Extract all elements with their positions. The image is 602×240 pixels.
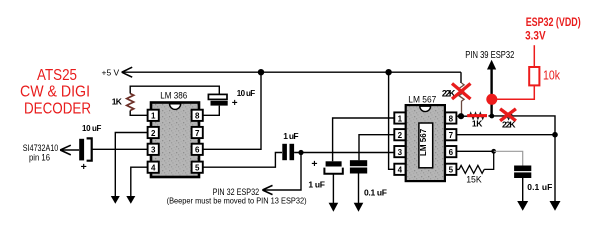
- junction rail to LM386 pin6: [258, 69, 264, 75]
- wire 10k to 3.3V: [533, 45, 535, 67]
- wire +5V rail: [122, 71, 461, 73]
- resistor 10k pullup (red): [529, 67, 539, 85]
- pin 3 U1: [148, 144, 159, 155]
- pin 5 U1: [192, 162, 203, 173]
- svg-text:6: 6: [449, 148, 454, 157]
- svg-text:5: 5: [449, 166, 454, 175]
- svg-text:+: +: [81, 161, 87, 173]
- wire pin4 to ground: [131, 167, 148, 196]
- pin 8 U1: [192, 110, 203, 121]
- wire cap to pin8: [203, 106, 220, 116]
- svg-text:10 uF: 10 uF: [237, 89, 255, 98]
- junction coupling node: [298, 150, 303, 155]
- svg-text:22K: 22K: [502, 120, 516, 130]
- svg-text:LM 386: LM 386: [160, 91, 187, 102]
- svg-text:ESP32 (VDD): ESP32 (VDD): [526, 17, 581, 29]
- wire pin6 to timing node: [456, 150, 493, 152]
- junction pin8 node: [458, 113, 464, 119]
- svg-text:5: 5: [195, 164, 200, 173]
- capacitor 10uF input: [79, 138, 92, 160]
- pin 8 U2: [445, 112, 456, 123]
- wire pin4 to +5V rail: [389, 72, 395, 169]
- wire 1K top to cap C1: [130, 86, 219, 94]
- pin 7 U2: [445, 129, 456, 140]
- ground arrow output: [550, 201, 561, 211]
- wire rail down to 22K: [460, 72, 462, 83]
- wire loop cap to ground: [358, 174, 360, 204]
- wire pin6 to +5V rail: [203, 72, 261, 149]
- tone decoder U2 LM567 body: [406, 105, 445, 181]
- pin 1 U2: [394, 112, 405, 123]
- resistor 22K removed (vertical): [459, 83, 464, 116]
- node PIN39 arrow: [487, 60, 496, 70]
- wire pin1 to output filter cap: [333, 118, 395, 161]
- ground arrow pin2: [111, 196, 120, 204]
- svg-text:7: 7: [449, 131, 454, 140]
- junction timing node: [491, 149, 496, 154]
- pin 2 U1: [148, 127, 159, 138]
- pin 7 U1: [192, 127, 203, 138]
- junction output ground node: [552, 132, 558, 138]
- svg-text:1 uF: 1 uF: [308, 180, 325, 190]
- svg-text:7: 7: [195, 129, 200, 138]
- red X over 22K removed (horizontal): [505, 114, 513, 120]
- pin 3 U2: [394, 146, 405, 157]
- ground arrow loop cap: [354, 203, 364, 212]
- op-amp U1 LM386 body: [151, 103, 199, 178]
- svg-text:+: +: [232, 98, 238, 109]
- svg-text:LM 567: LM 567: [408, 94, 436, 105]
- svg-text:3: 3: [151, 146, 156, 155]
- svg-text:3.3V: 3.3V: [525, 31, 546, 43]
- ground arrow timing cap: [517, 201, 528, 211]
- svg-text:4: 4: [398, 166, 403, 175]
- svg-text:PIN 32 ESP32: PIN 32 ESP32: [213, 187, 260, 197]
- svg-text:pin 16: pin 16: [29, 152, 50, 162]
- svg-text:4: 4: [151, 164, 156, 173]
- svg-text:10k: 10k: [543, 69, 561, 83]
- svg-text:0.1 uF: 0.1 uF: [364, 187, 387, 197]
- wire input cap to pin3: [92, 148, 148, 150]
- capacitor 0.1uF loop filter: [350, 160, 367, 173]
- wire pin2 to ground: [115, 133, 147, 197]
- wire timing cap to ground: [522, 178, 524, 202]
- svg-text:PIN 39 ESP32: PIN 39 ESP32: [465, 50, 514, 61]
- svg-text:1: 1: [398, 114, 403, 123]
- node +5V arrow: [122, 67, 133, 77]
- svg-text:0.1 uF: 0.1 uF: [527, 182, 552, 192]
- svg-text:15K: 15K: [466, 175, 482, 185]
- ground arrow filter cap: [329, 203, 339, 212]
- svg-text:2: 2: [151, 129, 156, 138]
- svg-text:10 uF: 10 uF: [82, 124, 102, 133]
- wire tap to PIN32: [264, 153, 301, 191]
- svg-text:1: 1: [151, 112, 156, 121]
- svg-text:+5 V: +5 V: [102, 68, 120, 78]
- svg-text:1 uF: 1 uF: [283, 131, 298, 141]
- wire PIN39 line: [490, 68, 492, 117]
- svg-text:+: +: [311, 158, 317, 170]
- capacitor 1uF output filter: [324, 161, 342, 173]
- pin 6 U2: [445, 146, 456, 157]
- pin 2 U2: [394, 129, 405, 140]
- pin 1 U1: [148, 110, 159, 121]
- junction PIN39 node: [489, 114, 494, 119]
- wire pin5 to coupling cap: [203, 153, 282, 168]
- wire pin1 to 1K bottom: [130, 111, 147, 116]
- node input arrow: [60, 145, 71, 155]
- svg-text:1K: 1K: [472, 119, 483, 129]
- ground arrow pin4: [126, 196, 135, 204]
- svg-text:8: 8: [195, 112, 200, 121]
- wire 1K to PIN39 junction: [488, 116, 555, 135]
- svg-text:2: 2: [398, 131, 403, 140]
- wire cap to LM567 pin3: [294, 152, 394, 154]
- wire timing node to timing cap (faint): [494, 151, 523, 165]
- junction red VDD node: [486, 94, 497, 105]
- svg-text:(Beeper must be moved to PIN 1: (Beeper must be moved to PIN 13 ESP32): [167, 197, 307, 206]
- pin 6 U1: [192, 144, 203, 155]
- pin 4 U1: [148, 162, 159, 173]
- resistor 15K timing: [459, 165, 484, 173]
- wire pin8 to 1K: [456, 115, 468, 117]
- svg-text:3: 3: [398, 148, 403, 157]
- svg-text:ATS25: ATS25: [37, 67, 77, 84]
- resistor 1K red (horizontal): [470, 113, 484, 119]
- wire down to ground: [554, 135, 556, 202]
- svg-text:1K: 1K: [112, 97, 123, 107]
- wire red VDD to 10k: [492, 85, 535, 99]
- capacitor 0.1uF timing: [514, 166, 531, 179]
- capacitor 10uF gain: [208, 94, 227, 105]
- wire pin7 to ground node: [456, 134, 555, 136]
- title ATS25 CW & DIGI DECODER: [20, 67, 91, 118]
- red X over 22K vertical: [452, 84, 471, 100]
- wire 15K to pin6 node: [484, 151, 494, 169]
- svg-text:SI4732A10: SI4732A10: [23, 143, 59, 153]
- junction rail to LM567 pin4: [385, 69, 391, 75]
- svg-text:8: 8: [449, 114, 454, 123]
- wire pin2 to loop filter cap: [359, 135, 394, 161]
- svg-text:CW & DIGI: CW & DIGI: [20, 84, 90, 101]
- svg-text:DECODER: DECODER: [24, 101, 91, 118]
- wire filter cap to ground: [332, 174, 334, 204]
- wire pin5 to 15K: [456, 168, 459, 170]
- svg-text:LM 567: LM 567: [419, 128, 428, 156]
- wire input arrow to cap: [60, 149, 79, 151]
- node PIN32 arrow: [262, 185, 272, 194]
- pin 4 U2: [394, 164, 405, 175]
- svg-text:6: 6: [195, 146, 200, 155]
- capacitor 1uF coupling: [282, 144, 294, 160]
- pin 5 U2: [445, 164, 456, 175]
- resistor 1K gain (maroon): [127, 94, 134, 111]
